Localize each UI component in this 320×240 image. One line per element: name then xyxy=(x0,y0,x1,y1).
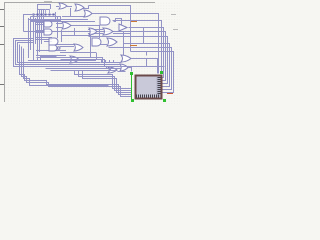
sheet left border xyxy=(4,2,6,102)
wire riser x33 xyxy=(33,14,35,60)
wire net N9 xyxy=(118,71,126,73)
label value L1 xyxy=(131,21,137,23)
subcircuit U20 right pins xyxy=(158,77,161,94)
wire net N4 xyxy=(36,55,66,57)
left margin tick C xyxy=(0,44,4,46)
tiny label text above loop xyxy=(44,1,52,3)
wire net H47 xyxy=(109,48,172,90)
wire net N7 xyxy=(129,68,132,72)
junction dots on bus xyxy=(33,14,55,16)
wire riser x35 xyxy=(35,18,37,44)
wire riser x74 xyxy=(74,28,76,36)
wire net H36 xyxy=(89,37,168,84)
subcircuit U20 inner right strip xyxy=(157,77,161,97)
wire loop net N1 xyxy=(37,4,51,10)
inverter bubble U11 xyxy=(57,47,60,50)
wire bus fan-out xyxy=(33,9,56,56)
wire net N2 xyxy=(89,6,131,52)
and-gate U12 xyxy=(92,38,101,46)
and-gate U4 xyxy=(44,21,52,27)
and-gate U10 xyxy=(49,38,58,45)
wire riser x28 xyxy=(28,18,30,58)
wire net N6 xyxy=(132,59,158,74)
label value L2 xyxy=(130,45,137,47)
wire net H42 xyxy=(124,44,170,87)
wire bus bottom staircase xyxy=(20,45,132,97)
or-gate U18 xyxy=(108,67,117,73)
wire net N10 xyxy=(131,52,147,56)
subcircuit U20 bottom pins xyxy=(136,95,159,98)
wire gate feeds xyxy=(28,6,130,53)
left margin tick B xyxy=(0,26,4,28)
wire net H31 xyxy=(24,32,166,81)
or-gate U8 xyxy=(89,28,97,35)
and-gate U5 xyxy=(44,29,52,35)
or-gate U16 xyxy=(121,55,131,62)
wire bus left risers xyxy=(14,39,165,69)
or-gate U17 xyxy=(120,64,128,71)
wire pin stubs xyxy=(102,60,114,63)
green pin dot 3 xyxy=(160,71,163,74)
green pin dot 2 xyxy=(131,99,134,102)
wire riser x30 xyxy=(30,20,32,50)
green pin dot 1 xyxy=(130,72,133,75)
or-gate U15 xyxy=(70,56,79,63)
or-gate U2 xyxy=(75,4,84,11)
wire net N3 xyxy=(38,57,57,61)
left margin tick D xyxy=(0,84,4,86)
green pin dot 4 xyxy=(163,99,166,102)
sheet top border xyxy=(4,2,155,4)
pin label text 1 xyxy=(171,14,176,16)
wire net N6b xyxy=(129,59,147,67)
wire loop net N8 xyxy=(31,17,61,21)
pin label text 2 xyxy=(173,29,178,31)
wire riser x123 xyxy=(123,31,125,55)
left margin tick A xyxy=(0,9,4,11)
wire bus middle xyxy=(28,58,122,71)
wire net N5 xyxy=(81,53,97,60)
wire net H52 xyxy=(131,52,174,93)
wire net H26 xyxy=(129,28,164,78)
wire riser x99 xyxy=(99,26,101,38)
and-gate U11 xyxy=(49,45,57,51)
and-gate U7 xyxy=(100,17,110,25)
label value L3 xyxy=(167,93,173,95)
wire net H13 xyxy=(93,14,159,74)
or-gate U3 xyxy=(84,10,92,17)
buffer U9 xyxy=(119,24,127,31)
wire riser x61 xyxy=(61,30,63,42)
green wire net xyxy=(131,73,133,100)
subcircuit U20 body xyxy=(136,76,162,99)
or-gate U1 xyxy=(59,3,67,9)
or-gate U6 xyxy=(62,22,71,29)
wire riser x23 xyxy=(24,15,34,32)
wire riser x90 xyxy=(90,34,92,57)
wire riser x143 xyxy=(143,28,145,43)
wire net H20 xyxy=(113,21,162,73)
or-gate U8b xyxy=(103,28,113,35)
or-gate U14 xyxy=(74,44,83,51)
wire riser x57 xyxy=(57,16,59,38)
or-gate U13 xyxy=(107,38,117,46)
